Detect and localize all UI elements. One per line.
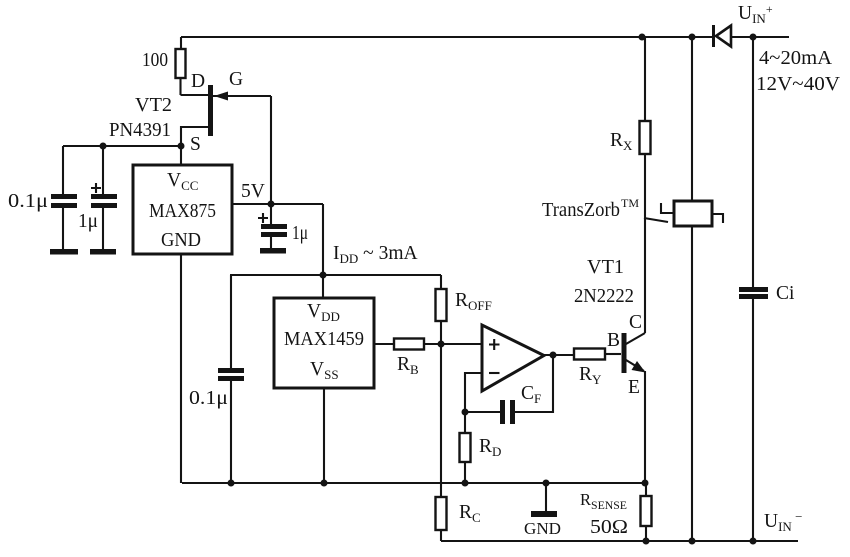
surge suppressor TransZorb: [691, 37, 693, 201]
wire RC branch down: [440, 344, 442, 497]
wire collector vertical: [644, 37, 646, 121]
svg-text:G: G: [229, 69, 243, 90]
resistor 100: [180, 37, 182, 49]
resistor RD: [464, 412, 466, 433]
node S junction: [178, 143, 185, 150]
node feedback junction: [462, 409, 469, 416]
wire 5V rail: [232, 203, 323, 205]
svg-text:TransZorb: TransZorb: [542, 200, 620, 221]
wire bottom bus: [441, 540, 798, 542]
ground GND symbol: [545, 483, 547, 511]
wire MAX875 GND down: [180, 254, 182, 483]
svg-text:5V: 5V: [241, 181, 265, 202]
svg-text:S: S: [190, 134, 201, 155]
svg-text:100: 100: [142, 50, 168, 71]
capacitor 1u left polarized: [102, 146, 104, 194]
node plus-input junction: [438, 341, 445, 348]
wire top rail left segment: [181, 36, 712, 38]
svg-text:50Ω: 50Ω: [590, 517, 628, 538]
svg-text:GND: GND: [524, 519, 561, 538]
capacitor 0.1u left: [62, 146, 64, 194]
resistor ROFF: [440, 275, 442, 289]
svg-text:E: E: [628, 377, 640, 398]
diode D1: [712, 25, 715, 47]
op-amp reference U1 MAX875 box: [180, 146, 182, 165]
transistor Q VT1 2N2222: [622, 333, 627, 373]
op-amp U3: [482, 325, 544, 391]
wire S node to left caps: [63, 145, 181, 147]
node bus junctions: [643, 538, 650, 545]
wire feedback: [515, 355, 553, 412]
wire emitter vertical: [644, 371, 646, 483]
svg-text:12V~40V: 12V~40V: [756, 74, 840, 95]
svg-text:1μ: 1μ: [78, 211, 98, 232]
capacitor CF: [500, 400, 505, 424]
capacitor Ci: [752, 37, 754, 287]
resistor RB: [374, 343, 394, 345]
resistor RSENSE 50ohm: [645, 483, 647, 496]
svg-text:1μ: 1μ: [292, 223, 308, 244]
svg-text:B: B: [607, 330, 620, 351]
node emitter-rail junction: [642, 480, 649, 487]
node output junction: [550, 352, 557, 359]
svg-text:D: D: [191, 71, 205, 92]
transistor Q VT2 PN4391 JFET: [208, 85, 213, 136]
svg-text:MAX1459: MAX1459: [284, 329, 364, 350]
svg-text:TM: TM: [621, 196, 639, 210]
svg-text:C: C: [629, 312, 642, 333]
wire top rail right segment: [731, 36, 789, 38]
op-amp reference U2 MAX1459 box: [274, 298, 374, 388]
svg-text:GND: GND: [161, 230, 201, 251]
svg-text:2N2222: 2N2222: [574, 286, 634, 307]
wire to op-amp plus input: [441, 343, 482, 345]
wire minus input: [465, 373, 482, 412]
wire left branch down: [230, 275, 232, 368]
node rail junctions: [228, 480, 235, 487]
svg-text:VT2: VT2: [135, 95, 172, 116]
resistor RC: [436, 497, 447, 530]
node top rail junctions: [639, 34, 646, 41]
wire VSS down: [323, 388, 325, 483]
node IDD junction: [320, 272, 327, 279]
node cap junction: [100, 143, 107, 150]
wire output: [544, 354, 574, 356]
svg-text:MAX875: MAX875: [149, 201, 216, 222]
capacitor 0.1u lower: [218, 368, 244, 373]
wire branch horizontal: [230, 274, 441, 276]
svg-text:0.1μ: 0.1μ: [8, 191, 48, 212]
resistor RY: [574, 349, 605, 360]
capacitor 1u at 5V polarized: [270, 204, 272, 224]
svg-text:PN4391: PN4391: [109, 120, 171, 141]
svg-text:0.1μ: 0.1μ: [189, 388, 228, 409]
wire gate vertical: [270, 96, 272, 204]
node 5V junction: [268, 201, 275, 208]
svg-text:4~20mA: 4~20mA: [759, 48, 832, 69]
wire 5V down to VDD: [322, 204, 324, 298]
resistor RX: [640, 121, 651, 154]
svg-text:VT1: VT1: [587, 257, 624, 278]
svg-text:Ci: Ci: [776, 283, 795, 304]
wire ground rail: [182, 482, 645, 484]
